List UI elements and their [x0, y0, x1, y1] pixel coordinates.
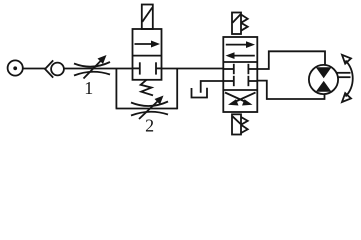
centre position blocked ports: [223, 64, 257, 86]
bidirectional rotation arrow: [342, 55, 353, 102]
top pilot solenoid actuator: [232, 13, 248, 35]
svg-text:2: 2: [145, 116, 154, 136]
wire check valve to valve body (main line through throttle 1): [64, 68, 133, 70]
hydraulic motor M1: [309, 65, 338, 94]
valve U1 body (2/2 way valve): [133, 29, 162, 80]
tank symbol: [192, 88, 208, 98]
bottom pilot solenoid actuator: [232, 114, 248, 134]
main line valve U1 to directional valve: [162, 68, 224, 70]
check valve: [45, 60, 64, 77]
directional valve U2 body (3 position): [223, 37, 257, 112]
throttle valve 1: [74, 55, 110, 79]
throttle valve 2: [131, 96, 168, 120]
bypass bottom wire: [116, 108, 178, 110]
pump (energy source) circle: [8, 60, 23, 75]
motor shaft: [337, 73, 351, 77]
bypass right arm: [176, 69, 178, 110]
top position parallel arrows: [226, 41, 256, 59]
wire valve port A to motor (upper): [257, 51, 325, 69]
svg-text:1: 1: [84, 78, 93, 98]
bottom position crossed arrows: [225, 93, 256, 106]
tank branch wire: [201, 81, 224, 93]
solenoid actuator on valve U1: [142, 5, 153, 30]
flow arrow in top position: [135, 41, 161, 48]
bypass branch left arm: [115, 69, 117, 109]
blocked ports in bottom position: [133, 62, 162, 74]
wire pump to check valve: [23, 68, 45, 70]
return spring of valve U1: [141, 80, 153, 96]
wire valve port B to motor (lower): [257, 81, 324, 99]
